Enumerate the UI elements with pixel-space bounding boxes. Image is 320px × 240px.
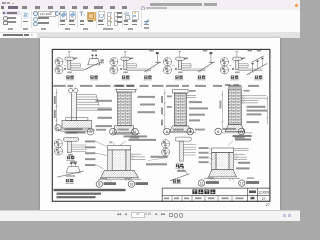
slope section with flag post <box>198 49 215 72</box>
plan detail: handrail cap, post, steps <box>120 51 151 73</box>
caption text 6 <box>223 127 245 137</box>
bubble 3 <box>87 128 94 135</box>
detailC3 leader arrows <box>96 141 107 168</box>
detail4 left dim line <box>221 90 223 130</box>
caption text 5 <box>173 128 184 130</box>
detail2 right leader notes <box>138 95 156 112</box>
label 10 <box>125 177 149 186</box>
detailC3 top leader notes <box>110 135 157 145</box>
detail3 left dim line <box>164 89 166 130</box>
group 6: page management <box>98 11 105 20</box>
title block <box>162 188 270 201</box>
caption text 2 <box>118 128 139 138</box>
detail3 footing <box>166 125 197 132</box>
group 5: typewriter + stamp <box>80 12 85 19</box>
groupC4 section label <box>172 179 181 183</box>
bubble 6 <box>215 128 222 135</box>
detailC5 right notes <box>236 161 250 169</box>
document tab bar <box>0 33 300 38</box>
svg-text:11: 11 <box>200 181 204 185</box>
detail1 footing <box>58 117 95 131</box>
detail1 wall column <box>71 92 76 120</box>
detail1 right leader notes <box>96 99 113 126</box>
detail2 stone wall <box>116 89 135 125</box>
group 4: edit text / edit object <box>60 11 67 20</box>
svg-text:12J003: 12J003 <box>258 190 269 194</box>
detail1 left dimension line <box>56 89 58 130</box>
plan label <box>66 75 75 79</box>
orange dot top right <box>295 4 298 7</box>
ramp section with rail posts <box>247 49 267 75</box>
detail4 pier wall <box>228 89 241 125</box>
svg-text:27: 27 <box>266 203 270 207</box>
title text blobs (4 chars) <box>192 189 215 194</box>
detail4 flare base <box>222 124 252 132</box>
bubble 5 <box>163 128 170 135</box>
detail3 right marks <box>186 95 196 97</box>
detail4 top dims <box>225 84 243 89</box>
status bar <box>0 210 300 222</box>
plan detail: handrail cap, post, steps <box>175 51 206 73</box>
window title text <box>150 3 202 5</box>
svg-text:9: 9 <box>98 181 101 186</box>
title block small row text <box>164 197 244 199</box>
axis bubbles <box>220 57 231 73</box>
groupC4 axis bubbles <box>162 139 170 156</box>
label 9 <box>96 177 116 186</box>
bubble 7 <box>187 128 194 135</box>
plan label <box>230 75 239 79</box>
caption bubbles row <box>55 124 245 138</box>
groupC1 slope section <box>57 161 84 177</box>
svg-text:12: 12 <box>240 181 244 185</box>
caption text 3 <box>96 128 106 130</box>
slope section with flag post <box>144 49 161 72</box>
svg-text:27: 27 <box>262 196 266 200</box>
bubble 8 <box>238 128 245 135</box>
active document tab <box>0 33 37 38</box>
ribbon tabs row (blobs) <box>1 6 4 9</box>
section label <box>197 75 206 79</box>
detailC5 left leader notes <box>199 147 209 163</box>
document area background <box>0 38 300 210</box>
detailC3 U foundation <box>98 145 141 179</box>
detailC5 top leader notes <box>228 135 252 146</box>
detail2 footing <box>111 125 140 134</box>
bubble 4 <box>132 128 139 135</box>
svg-text:6: 6 <box>217 129 220 134</box>
groupC1 plan detail <box>63 137 86 155</box>
axis bubbles <box>110 57 121 73</box>
axis bubbles <box>163 57 174 73</box>
plan detail: handrail cap, post, steps <box>64 51 84 73</box>
group 3: zoom <box>33 11 38 16</box>
detailC3 right notes <box>146 155 168 165</box>
caption text 1 <box>65 128 83 133</box>
white page <box>40 38 280 210</box>
plan detail: handrail cap, post, steps <box>232 51 262 73</box>
svg-text:5: 5 <box>166 129 169 134</box>
section label <box>90 75 99 79</box>
detail4 right dim line <box>266 96 268 125</box>
detail4 right notes <box>247 105 268 122</box>
detail1 steps plan lines <box>77 94 112 110</box>
plan label <box>175 75 184 79</box>
group 1 : select tools, three stacked rows <box>2 11 20 15</box>
detailC5 U foundation <box>204 148 240 178</box>
axis bubbles <box>55 57 66 73</box>
ribbon body <box>0 10 300 33</box>
cushion labels row <box>96 177 259 187</box>
groupC1 plan label <box>66 155 75 159</box>
svg-text:10: 10 <box>130 182 134 186</box>
detail1 handrail anchor circles <box>69 86 78 92</box>
label 12 <box>239 177 260 186</box>
group 2: hand tool big button <box>23 12 29 20</box>
groupC1 axis bubbles <box>54 139 62 155</box>
atlas number cell <box>249 190 269 200</box>
detail3 right notes <box>189 101 208 121</box>
detailC5 slab right <box>234 148 249 159</box>
drawing SVG <box>40 38 280 210</box>
groupC4 slope section <box>170 166 189 181</box>
detailC3 left leader notes <box>85 140 96 166</box>
detail1 bottom note <box>67 131 86 133</box>
detailC5 leader arrows <box>209 148 213 165</box>
notes text block <box>54 188 126 198</box>
svg-text:1: 1 <box>57 125 60 130</box>
detail2 top dimension <box>115 84 138 90</box>
drawing frame border <box>52 49 270 201</box>
groupC4 plan label <box>175 163 184 167</box>
section label <box>254 75 263 79</box>
bubble 1 <box>55 124 61 130</box>
detailC3 steps right <box>131 154 146 160</box>
group 8: PDF sign <box>144 12 150 19</box>
groupC4 plan detail <box>175 137 196 161</box>
title bar <box>0 0 300 10</box>
label 11 <box>198 177 219 186</box>
detail4 slab lines right <box>241 95 266 102</box>
detail3 wall <box>173 89 188 125</box>
section label <box>144 75 153 79</box>
bubble 2 <box>110 128 117 135</box>
groupC1 section label <box>65 178 74 182</box>
app menu icons top-left <box>2 2 6 5</box>
plan label <box>121 75 130 79</box>
slope section with platform <box>84 49 104 69</box>
caption text 7 <box>195 128 205 130</box>
group 7: print / convert <box>124 12 130 15</box>
leader note text row under top groups <box>53 84 259 86</box>
cushion leader marks <box>107 178 235 181</box>
